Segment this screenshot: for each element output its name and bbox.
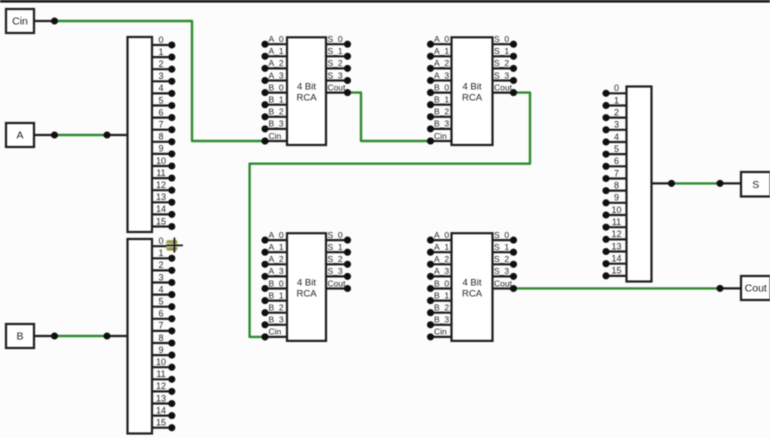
svg-text:14: 14 <box>156 204 166 214</box>
wire sum net: merger M1 output to S pin (green) <box>672 182 721 184</box>
svg-text:Cin: Cin <box>12 16 28 28</box>
svg-text:S_3: S_3 <box>494 70 509 80</box>
svg-text:6: 6 <box>158 309 163 319</box>
merger M1 (S bus) pin 9 <box>602 193 626 207</box>
junction dot on B net near B box <box>51 332 58 339</box>
svg-text:12: 12 <box>611 229 621 239</box>
svg-text:RCA: RCA <box>296 93 317 104</box>
U4 output pin S_0 <box>493 230 518 244</box>
svg-text:A_0: A_0 <box>269 230 284 240</box>
splitter SP1 (A bus) pin 1 <box>152 47 175 61</box>
U2 input pin A_2 <box>427 58 452 72</box>
svg-text:3: 3 <box>158 71 163 81</box>
splitter SP2 (B bus) pin 0 <box>152 236 175 250</box>
U4 output pin S_3 <box>493 266 518 280</box>
U2 output pin S_2 <box>493 58 518 72</box>
svg-text:S_3: S_3 <box>494 266 509 276</box>
U1 input pin A_2 <box>261 58 287 72</box>
svg-text:A: A <box>16 130 23 142</box>
svg-text:7: 7 <box>158 321 163 331</box>
svg-text:15: 15 <box>156 216 166 226</box>
svg-text:0: 0 <box>158 35 163 45</box>
splitter SP1 (A bus) pin 8 <box>152 132 175 146</box>
junction dot at U1.Cin <box>261 137 268 144</box>
svg-text:B_1: B_1 <box>434 95 449 105</box>
svg-text:S_1: S_1 <box>328 46 343 56</box>
svg-text:14: 14 <box>156 405 166 415</box>
wire carry-out net: black segment to Cout pin box <box>720 287 741 289</box>
svg-text:12: 12 <box>156 381 166 391</box>
svg-text:4: 4 <box>614 132 619 142</box>
U1 input pin B_2 <box>261 107 287 121</box>
junction dot on sum net near S box <box>716 180 723 187</box>
wire A net: A pin to splitter SP1 (green segment) <box>55 134 108 136</box>
svg-text:4: 4 <box>158 83 163 93</box>
svg-text:B_3: B_3 <box>434 119 449 129</box>
svg-text:Cin: Cin <box>434 327 447 337</box>
junction dot at U3.Cin <box>261 333 268 340</box>
svg-text:13: 13 <box>611 241 621 251</box>
svg-text:A_0: A_0 <box>269 34 284 44</box>
svg-text:B_2: B_2 <box>434 303 449 313</box>
wire Cin net: Cin pin to U1.Cin (green) <box>55 21 266 141</box>
svg-text:A_2: A_2 <box>434 58 449 68</box>
svg-text:A_1: A_1 <box>269 242 284 252</box>
svg-text:5: 5 <box>614 144 619 154</box>
splitter SP2 (B bus) pin 13 <box>152 393 175 407</box>
svg-text:9: 9 <box>158 144 163 154</box>
splitter SP1 (A bus) pin 4 <box>152 83 175 97</box>
U2 output pin S_0 <box>493 34 518 48</box>
4-bit RCA subcircuit U4 body <box>452 233 493 341</box>
svg-text:7: 7 <box>614 168 619 178</box>
U4 input pin Cin <box>427 327 452 341</box>
U1 output pin S_3 <box>326 70 351 84</box>
merger M1 (S bus) pin 12 <box>602 229 626 243</box>
junction dot on Cin net <box>51 17 58 24</box>
U2 input pin B_0 <box>427 82 452 96</box>
svg-text:B_1: B_1 <box>269 290 284 300</box>
U1 input pin B_0 <box>261 82 287 96</box>
splitter SP1 (A bus) pin 7 <box>152 120 175 134</box>
svg-text:10: 10 <box>611 205 621 215</box>
splitter SP2 (B bus) pin 8 <box>152 333 175 347</box>
splitter SP1 (A bus) pin 11 <box>152 168 175 182</box>
svg-text:S_1: S_1 <box>328 242 343 252</box>
svg-text:A_2: A_2 <box>269 58 284 68</box>
svg-text:A_3: A_3 <box>269 70 284 80</box>
svg-text:1: 1 <box>614 95 619 105</box>
svg-text:B_2: B_2 <box>269 107 284 117</box>
svg-text:11: 11 <box>156 168 165 178</box>
U3 output pin S_0 <box>326 230 351 244</box>
merger M1 (S bus) pin 13 <box>602 241 626 255</box>
splitter SP2 (B bus) pin 9 <box>152 345 175 359</box>
splitter SP1 (A bus) pin 5 <box>152 95 175 109</box>
svg-text:1: 1 <box>158 47 163 57</box>
svg-text:Cout: Cout <box>494 82 513 92</box>
bus merger M1 (S bus) body <box>627 87 652 282</box>
svg-text:S_0: S_0 <box>494 34 509 44</box>
svg-text:Cout: Cout <box>328 82 347 92</box>
svg-text:9: 9 <box>614 193 619 203</box>
svg-text:Cout: Cout <box>328 278 347 288</box>
svg-text:14: 14 <box>611 253 621 263</box>
U3 input pin A_0 <box>261 230 287 244</box>
U1 output pin S_0 <box>326 34 351 48</box>
U2 output pin S_3 <box>493 70 518 84</box>
U3 input pin A_3 <box>261 266 287 280</box>
splitter SP2 (B bus) pin 6 <box>152 309 175 323</box>
svg-text:9: 9 <box>158 345 163 355</box>
U4 output pin S_1 <box>493 242 518 256</box>
svg-text:4 Bit: 4 Bit <box>462 82 481 93</box>
U1 input pin A_0 <box>261 34 287 48</box>
svg-text:15: 15 <box>611 266 621 276</box>
svg-text:B_3: B_3 <box>434 315 449 325</box>
svg-text:4 Bit: 4 Bit <box>297 82 316 93</box>
U3 input pin B_2 <box>261 303 287 317</box>
svg-text:13: 13 <box>156 192 166 202</box>
svg-text:10: 10 <box>156 156 166 166</box>
svg-text:B_3: B_3 <box>269 315 284 325</box>
U2 input pin B_3 <box>427 119 452 133</box>
svg-text:B_1: B_1 <box>269 95 284 105</box>
wire B net: B pin to splitter SP2 (green segment) <box>55 335 108 337</box>
wire A net: black segment to splitter SP1 <box>107 134 128 136</box>
wire stub from A box <box>34 134 55 136</box>
svg-text:S_0: S_0 <box>328 230 343 240</box>
input/output pin Cin <box>6 9 34 33</box>
U1 input pin B_1 <box>261 95 287 109</box>
splitter SP1 (A bus) pin 6 <box>152 107 175 121</box>
splitter SP2 (B bus) pin 11 <box>152 369 175 383</box>
svg-text:1: 1 <box>158 248 163 258</box>
svg-text:RCA: RCA <box>462 93 483 104</box>
input/output pin S <box>741 172 770 197</box>
svg-text:4 Bit: 4 Bit <box>462 277 481 288</box>
svg-text:B_0: B_0 <box>434 82 449 92</box>
svg-text:0: 0 <box>158 236 163 246</box>
svg-text:8: 8 <box>614 180 619 190</box>
wire sum net: black segment to S pin box <box>720 182 741 184</box>
merger M1 (S bus) pin 5 <box>602 144 626 158</box>
splitter SP2 (B bus) pin 12 <box>152 381 175 395</box>
svg-text:B_2: B_2 <box>269 303 284 313</box>
junction dot on B net near splitter SP2 <box>103 332 110 339</box>
svg-text:B_1: B_1 <box>434 290 449 300</box>
splitter SP1 (A bus) pin 3 <box>152 71 175 85</box>
svg-text:11: 11 <box>612 217 621 227</box>
svg-text:S_2: S_2 <box>328 254 343 264</box>
U4 output pin S_2 <box>493 254 518 268</box>
splitter SP2 (B bus) pin 3 <box>152 272 175 286</box>
merger M1 (S bus) pin 14 <box>602 253 626 267</box>
merger M1 (S bus) pin 15 <box>602 266 626 280</box>
svg-text:S_0: S_0 <box>328 34 343 44</box>
U3 output pin S_1 <box>326 242 351 256</box>
U2 input pin A_3 <box>427 70 452 84</box>
U4 input pin A_0 <box>427 230 452 244</box>
junction dot on carry-out net near Cout box <box>716 285 723 292</box>
svg-text:S_2: S_2 <box>328 58 343 68</box>
merger M1 (S bus) pin 7 <box>602 168 626 182</box>
svg-text:A_0: A_0 <box>434 34 449 44</box>
merger M1 (S bus) pin 6 <box>602 156 626 170</box>
U2 input pin A_1 <box>427 46 452 60</box>
U3 input pin A_1 <box>261 242 287 256</box>
svg-text:8: 8 <box>158 132 163 142</box>
svg-text:S: S <box>752 179 759 191</box>
svg-text:8: 8 <box>158 333 163 343</box>
wire carry net: U1.Cout to U2.Cin (green) <box>348 93 431 141</box>
svg-text:6: 6 <box>614 156 619 166</box>
svg-text:S_2: S_2 <box>494 254 509 264</box>
U3 input pin B_3 <box>261 315 287 329</box>
svg-text:A_0: A_0 <box>434 230 449 240</box>
splitter SP2 (B bus) pin 2 <box>152 260 175 274</box>
U2 input pin A_0 <box>427 34 452 48</box>
poke-tool cursor crosshair at splitter SP2 pin 0 <box>166 238 183 253</box>
U3 output pin Cout <box>326 278 351 292</box>
svg-text:S_1: S_1 <box>494 46 509 56</box>
U2 input pin Cin <box>427 131 452 145</box>
U2 output pin S_1 <box>493 46 518 60</box>
junction dot on A net near A box <box>51 131 58 138</box>
svg-text:15: 15 <box>156 418 166 428</box>
svg-text:13: 13 <box>156 393 166 403</box>
svg-text:Cout: Cout <box>745 283 767 295</box>
svg-text:S_2: S_2 <box>494 58 509 68</box>
U3 input pin B_0 <box>261 278 287 292</box>
svg-text:B_0: B_0 <box>434 278 449 288</box>
junction dot at merger M1 output <box>668 180 675 187</box>
U2 output pin Cout <box>493 82 518 96</box>
splitter SP2 (B bus) body <box>128 239 153 434</box>
svg-text:10: 10 <box>156 357 166 367</box>
junction dot at U2.Cin <box>427 137 434 144</box>
splitter SP1 (A bus) pin 14 <box>152 204 175 218</box>
merger M1 (S bus) pin 1 <box>602 95 626 109</box>
merger M1 (S bus) pin 3 <box>602 120 626 134</box>
svg-text:2: 2 <box>158 260 163 270</box>
U4 input pin B_1 <box>427 290 452 304</box>
splitter SP2 (B bus) pin 4 <box>152 284 175 298</box>
svg-text:6: 6 <box>158 107 163 117</box>
splitter SP1 (A bus) pin 2 <box>152 59 175 73</box>
merger M1 (S bus) pin 0 <box>602 83 626 97</box>
splitter SP1 (A bus) body <box>128 37 153 232</box>
splitter SP1 (A bus) pin 10 <box>152 156 175 170</box>
splitter SP2 (B bus) pin 14 <box>152 405 175 419</box>
input/output pin A <box>6 123 34 147</box>
svg-text:A_2: A_2 <box>269 254 284 264</box>
svg-text:2: 2 <box>614 107 619 117</box>
splitter SP2 (B bus) pin 7 <box>152 321 175 335</box>
splitter SP1 (A bus) pin 15 <box>152 216 175 230</box>
svg-text:4: 4 <box>158 284 163 294</box>
U1 output pin S_2 <box>326 58 351 72</box>
U4 input pin B_3 <box>427 315 452 329</box>
merger M1 (S bus) pin 4 <box>602 132 626 146</box>
svg-text:A_3: A_3 <box>434 266 449 276</box>
splitter SP1 (A bus) pin 12 <box>152 180 175 194</box>
input/output pin Cout <box>741 276 770 300</box>
U4 input pin B_0 <box>427 278 452 292</box>
svg-text:5: 5 <box>158 95 163 105</box>
svg-text:A_2: A_2 <box>434 254 449 264</box>
junction dot on A net near splitter SP1 <box>103 131 110 138</box>
U1 input pin B_3 <box>261 119 287 133</box>
svg-text:Cin: Cin <box>269 131 282 141</box>
U3 input pin A_2 <box>261 254 287 268</box>
input/output pin B <box>6 324 34 348</box>
splitter SP2 (B bus) pin 10 <box>152 357 175 371</box>
svg-text:Cin: Cin <box>269 327 282 337</box>
svg-text:A_3: A_3 <box>434 70 449 80</box>
svg-text:3: 3 <box>158 272 163 282</box>
svg-text:5: 5 <box>158 297 163 307</box>
4-bit RCA subcircuit U2 body <box>452 37 493 145</box>
svg-text:B_2: B_2 <box>434 107 449 117</box>
svg-text:A_1: A_1 <box>434 46 449 56</box>
svg-text:B_0: B_0 <box>269 278 284 288</box>
svg-text:S_3: S_3 <box>328 70 343 80</box>
U1 input pin A_1 <box>261 46 287 60</box>
U4 input pin B_2 <box>427 303 452 317</box>
splitter SP2 (B bus) pin 15 <box>152 418 175 432</box>
wire stub from B box <box>34 335 55 337</box>
svg-text:7: 7 <box>158 120 163 130</box>
wire B net: black segment to splitter SP2 <box>107 335 128 337</box>
wire carry-out net: U4.Cout to Cout pin (green) <box>514 287 721 289</box>
U4 input pin A_1 <box>427 242 452 256</box>
splitter SP2 (B bus) pin 1 <box>152 248 175 262</box>
U2 input pin B_1 <box>427 95 452 109</box>
U4 input pin A_2 <box>427 254 452 268</box>
U4 output pin Cout <box>493 278 518 292</box>
svg-text:S_0: S_0 <box>494 230 509 240</box>
svg-text:A_3: A_3 <box>269 266 284 276</box>
U1 input pin Cin <box>261 131 287 145</box>
svg-text:Cout: Cout <box>494 278 513 288</box>
svg-text:RCA: RCA <box>296 288 317 299</box>
U1 input pin A_3 <box>261 70 287 84</box>
splitter SP1 (A bus) pin 0 <box>152 35 175 49</box>
svg-text:A_1: A_1 <box>269 46 284 56</box>
U3 output pin S_3 <box>326 266 351 280</box>
U2 input pin B_2 <box>427 107 452 121</box>
U3 input pin Cin <box>261 327 287 341</box>
4-bit RCA subcircuit U1 body <box>287 37 326 145</box>
svg-text:4 Bit: 4 Bit <box>297 277 316 288</box>
svg-text:12: 12 <box>156 180 166 190</box>
U1 output pin Cout <box>326 82 351 96</box>
svg-text:S_1: S_1 <box>494 242 509 252</box>
svg-text:B_0: B_0 <box>269 82 284 92</box>
svg-text:0: 0 <box>614 83 619 93</box>
splitter SP1 (A bus) pin 13 <box>152 192 175 206</box>
U4 input pin A_3 <box>427 266 452 280</box>
wire stub from Cin box <box>34 20 55 22</box>
svg-text:A_1: A_1 <box>434 242 449 252</box>
wire stub merger M1 output leg <box>652 182 672 184</box>
merger M1 (S bus) pin 2 <box>602 107 626 121</box>
U3 output pin S_2 <box>326 254 351 268</box>
svg-text:Cin: Cin <box>434 131 447 141</box>
splitter SP1 (A bus) pin 9 <box>152 144 175 158</box>
svg-text:11: 11 <box>156 369 165 379</box>
svg-text:B_3: B_3 <box>269 119 284 129</box>
svg-text:2: 2 <box>158 59 163 69</box>
splitter SP2 (B bus) pin 5 <box>152 297 175 311</box>
U1 output pin S_1 <box>326 46 351 60</box>
svg-text:3: 3 <box>614 120 619 130</box>
svg-text:RCA: RCA <box>462 288 483 299</box>
U3 input pin B_1 <box>261 290 287 304</box>
wire carry net: U2.Cout to U3.Cin (green) <box>250 93 530 337</box>
merger M1 (S bus) pin 8 <box>602 180 626 194</box>
svg-text:B: B <box>16 331 23 343</box>
merger M1 (S bus) pin 11 <box>602 217 626 231</box>
merger M1 (S bus) pin 10 <box>602 205 626 219</box>
svg-text:S_3: S_3 <box>328 266 343 276</box>
4-bit RCA subcircuit U3 body <box>287 233 326 341</box>
